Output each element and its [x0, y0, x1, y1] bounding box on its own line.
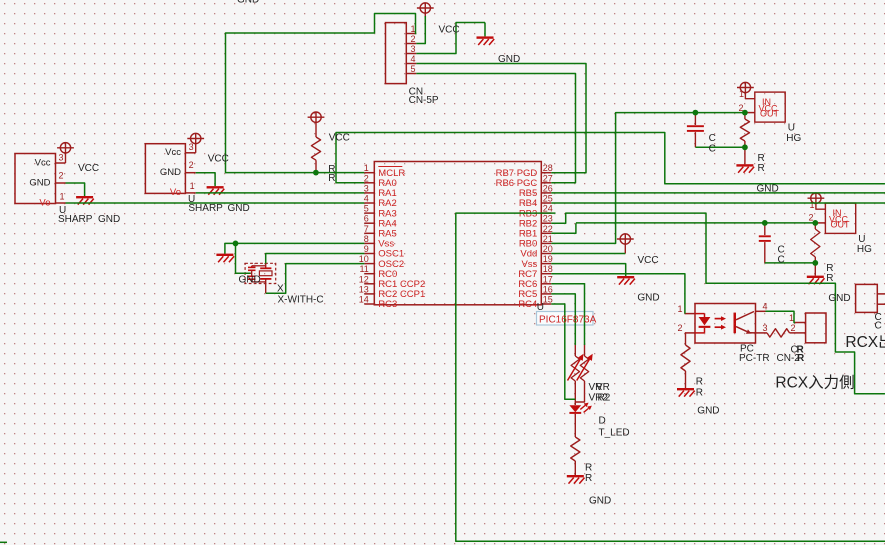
IC U1 left pins 1-14 stubs — [364, 173, 374, 304]
IR receiver module U4 HG (upper) body — [745, 92, 785, 122]
LED D1 emission arrows — [580, 403, 592, 413]
PC1 phototransistor — [734, 312, 756, 334]
svg-text:PC-TR: PC-TR — [739, 353, 770, 364]
svg-text:7: 7 — [364, 224, 369, 234]
svg-text:D: D — [599, 416, 606, 427]
svg-text:24: 24 — [543, 204, 553, 214]
U4 pin names IN VCC OUT — [759, 97, 780, 118]
label R R (R2) — [758, 153, 765, 174]
svg-text:C: C — [709, 143, 716, 154]
svg-text:VCC: VCC — [439, 25, 460, 36]
svg-text:RC3: RC3 — [378, 299, 397, 310]
svg-text:2: 2 — [410, 34, 415, 44]
optocoupler PC1 PC-TR body — [685, 304, 767, 344]
svg-text:OUT: OUT — [760, 108, 780, 118]
connector C2? CN-2P body — [795, 313, 826, 343]
label R R (R4) — [696, 376, 703, 398]
wire: RB4 net (pin24 through IC to bottom edge) — [456, 213, 885, 541]
resistor R1 (MCLR pull-up) — [311, 122, 320, 172]
junction at U4 pin2 / R2 — [742, 110, 748, 116]
junction at R1 / MCLR — [313, 170, 319, 176]
svg-text:RCX入力側: RCX入力側 — [775, 373, 854, 391]
svg-text:R: R — [585, 462, 592, 473]
wire: RC4 pin15 to LED anode node — [551, 304, 575, 399]
svg-text:GND: GND — [637, 293, 659, 304]
crystal X1 element — [259, 263, 272, 293]
IR receiver module U5 HG (lower) body — [815, 203, 855, 233]
svg-text:SHARP: SHARP — [188, 203, 223, 214]
wire: RC7 pin18 to PC1 pin1 — [551, 274, 685, 314]
label R R (R1) — [328, 164, 335, 184]
junction at C2 top — [762, 220, 768, 226]
label C C (right edge connector) — [875, 312, 882, 331]
IC U1 left pin numbers 1-14 — [359, 163, 369, 304]
wire: SHARP U3 GND pin to ground — [196, 173, 215, 186]
resistor R5 (series to CN-2P) — [767, 329, 806, 337]
ground symbol near Vss pin19 — [617, 276, 635, 285]
PC1 pin numbers — [677, 301, 767, 333]
svg-text:R2: R2 — [598, 392, 611, 403]
svg-text:T_LED: T_LED — [599, 427, 630, 438]
svg-text:2: 2 — [808, 213, 813, 223]
svg-text:VCC: VCC — [638, 255, 659, 266]
label U / SHARP / GND (U3) — [188, 194, 250, 214]
svg-text:8: 8 — [364, 234, 369, 244]
wire: OSC1 to crystal — [266, 254, 365, 264]
svg-text:VCC: VCC — [208, 154, 229, 165]
capacitor C2 (at U5) — [759, 223, 771, 263]
junction at Vss net — [233, 241, 239, 247]
capacitor C1 (at U4) — [687, 113, 704, 148]
svg-text:1: 1 — [190, 181, 195, 191]
svg-text:R: R — [696, 387, 703, 398]
IC U1 right pins 28-15 stubs — [541, 173, 551, 304]
svg-text:22: 22 — [543, 224, 553, 234]
svg-text:RCX出力側: RCX出力側 — [845, 333, 885, 351]
svg-text:28: 28 — [543, 163, 553, 173]
svg-text:GND: GND — [237, 0, 259, 6]
label C C (C1) — [709, 133, 716, 154]
svg-text:17: 17 — [543, 274, 553, 284]
svg-text:X: X — [277, 283, 284, 294]
svg-text:19: 19 — [543, 254, 553, 264]
SHARP sensor U2 (left) body — [15, 154, 66, 204]
svg-text:25: 25 — [543, 194, 553, 204]
svg-text:23: 23 — [543, 214, 553, 224]
SHARP U3 pin numbers — [189, 142, 195, 191]
ground symbol below R2 — [736, 164, 754, 173]
svg-text:VCC: VCC — [329, 132, 350, 143]
svg-text:Vcc: Vcc — [165, 147, 181, 158]
svg-text:3: 3 — [364, 183, 369, 193]
wire: Vdd pin20 to VCC symbol — [551, 253, 625, 255]
wire: Vss pin8 net to crystal ground — [225, 243, 364, 273]
ground symbol near CN-5P — [484, 23, 486, 37]
SHARP U2 pin numbers — [58, 152, 64, 201]
wire: OSC2 to crystal — [266, 264, 365, 294]
IC U1 right pin names — [496, 168, 538, 310]
U4 pin numbers — [738, 89, 744, 113]
resistor R4 (below PC1 pin 2) — [681, 333, 690, 388]
svg-text:C: C — [875, 320, 882, 331]
wire: SHARP U2 Vo to RA2 — [66, 202, 365, 204]
resistor R6 (below LED) — [571, 437, 580, 475]
svg-text:Vo: Vo — [39, 198, 50, 209]
svg-text:15: 15 — [543, 295, 553, 305]
resistor R3 (at U5) — [811, 223, 820, 276]
ground symbol below R3 — [807, 276, 825, 285]
wire: Vss pin19 to ground — [551, 264, 625, 276]
svg-text:1: 1 — [410, 24, 415, 34]
PC1 emission arrows — [715, 316, 726, 329]
svg-text:GND: GND — [757, 183, 779, 194]
svg-text:27: 27 — [543, 173, 553, 183]
ground symbol near SHARP U3 — [207, 186, 225, 195]
wire: RB2 net to U5 OUT — [551, 223, 815, 233]
SHARP sensor U3 (second) body — [145, 144, 195, 194]
label C C (C2) — [778, 244, 785, 265]
svg-text:GND: GND — [697, 405, 719, 416]
resistor R2 (at U4) — [740, 113, 749, 165]
svg-text:R: R — [696, 376, 703, 387]
svg-text:C: C — [778, 255, 785, 266]
wire: SHARP U3 Vo to RA1 — [196, 192, 365, 194]
svg-text:HG: HG — [786, 133, 801, 144]
svg-text:3: 3 — [58, 152, 63, 162]
svg-text:CN-5P: CN-5P — [409, 95, 439, 106]
svg-text:1: 1 — [789, 313, 794, 323]
wire: VCC net RA0 run — [336, 133, 885, 184]
SHARP U2 pin names — [29, 157, 50, 208]
wire: RC6 pin17 to VR2 — [551, 284, 584, 345]
svg-text:U: U — [537, 302, 544, 313]
vcc symbol at SHARP U2 — [57, 143, 74, 163]
svg-text:2: 2 — [58, 170, 63, 180]
IC U1 PIC16F873A body — [374, 162, 541, 305]
svg-text:11: 11 — [359, 264, 368, 274]
svg-text:20: 20 — [543, 244, 553, 254]
svg-text:1: 1 — [809, 200, 814, 210]
svg-text:4: 4 — [763, 301, 768, 311]
label X / X-WITH-C — [277, 283, 324, 305]
svg-text:GND: GND — [498, 54, 520, 65]
connector C (right edge) body — [856, 284, 885, 312]
svg-text:14: 14 — [359, 295, 369, 305]
SHARP U3 pin names — [160, 147, 181, 198]
connector CN CN-5P — [386, 23, 417, 84]
svg-text:SHARP: SHARP — [58, 214, 93, 225]
ground symbol near crystal — [216, 254, 234, 263]
svg-text:4: 4 — [364, 194, 369, 204]
label R R (R6) — [585, 462, 592, 484]
ground symbol near SHARP U2 — [76, 196, 94, 205]
svg-text:5: 5 — [410, 64, 415, 74]
wire: PGC net CN-5P pin5 to RB6 — [416, 74, 575, 183]
svg-text:26: 26 — [543, 183, 553, 193]
label CR / CN-2R (R5 and CN-2P overlapped) — [777, 344, 806, 364]
junction at R2 bottom — [742, 144, 748, 150]
svg-text:GND: GND — [98, 214, 120, 225]
svg-text:13: 13 — [359, 284, 369, 294]
wire: RC5 pin16 to VR1 — [551, 294, 575, 345]
CN-2P pin numbers — [789, 313, 796, 333]
U5 pin numbers — [808, 200, 814, 222]
svg-text:1: 1 — [677, 304, 682, 314]
label R R (R3) — [826, 263, 833, 284]
wire: C2 bottom to R3 bottom — [765, 262, 816, 264]
IC U1 right pin numbers 28-15 — [543, 163, 553, 304]
LED D1 T_LED — [569, 405, 581, 437]
wire: SHARP U2 GND pin to ground — [66, 183, 85, 196]
wire: VCC net (CN-5P pin2 to symbol) — [416, 16, 425, 44]
svg-text:PIC16F873A: PIC16F873A — [539, 314, 597, 325]
wire: GND net from pin26 to right edge — [551, 192, 885, 194]
svg-text:R: R — [826, 273, 833, 284]
svg-text:GND: GND — [160, 167, 181, 178]
svg-text:2: 2 — [790, 323, 795, 333]
svg-text:4: 4 — [410, 54, 415, 64]
label U / SHARP / GND (U2) — [58, 205, 120, 225]
svg-text:9: 9 — [364, 244, 369, 254]
svg-text:GND: GND — [239, 274, 261, 285]
wire: CN-5P pin3 to ground — [416, 23, 485, 54]
svg-text:Vo: Vo — [170, 187, 181, 198]
wire: PGD net CN-5P pin4 to RB7 — [416, 64, 586, 173]
vcc symbol above U4 pin 1 — [737, 82, 754, 92]
crystal X1 X-WITH-C dashed box — [245, 263, 276, 283]
svg-text:R: R — [585, 473, 592, 484]
svg-text:16: 16 — [543, 284, 553, 294]
PC1 internal LED — [695, 314, 710, 333]
label U / HG (U4) — [786, 123, 801, 144]
svg-text:GND: GND — [828, 293, 850, 304]
ground symbol below R6 — [567, 475, 585, 484]
junction at C1 top — [693, 110, 699, 116]
svg-text:RC4: RC4 — [518, 299, 537, 310]
crystal X1 internal load capacitors — [248, 266, 266, 282]
IC U1 left pin names — [378, 167, 425, 311]
wire: stub at bottom-left edge — [0, 541, 7, 543]
vcc symbol at Vdd pin20 — [617, 234, 634, 254]
svg-text:5: 5 — [364, 204, 369, 214]
U5 pin names IN VCC OUT — [829, 208, 850, 229]
svg-text:6: 6 — [364, 214, 369, 224]
variable resistor VR2 — [575, 345, 592, 403]
label U / HG (U5) — [857, 234, 872, 255]
svg-text:1: 1 — [739, 89, 744, 99]
svg-text:R: R — [758, 163, 765, 174]
vcc symbol above U5 pin 1 — [808, 193, 825, 203]
wire: C1 bottom to R2 bottom — [695, 146, 745, 148]
label CN / CN-5P — [409, 87, 439, 106]
svg-text:2: 2 — [364, 173, 369, 183]
svg-text:R: R — [797, 353, 805, 364]
vcc symbol at SHARP U3 — [187, 133, 204, 153]
wire: RB4 net from pin25 to right edge — [551, 202, 885, 204]
wire: MCLR net from CN-5P pin1 — [226, 14, 417, 173]
junction at R3 bottom — [812, 260, 818, 266]
wire: PC1 pin4 to CN-2P pin1 — [766, 311, 796, 322]
svg-text:X-WITH-C: X-WITH-C — [278, 295, 324, 306]
svg-text:VCC: VCC — [78, 163, 99, 174]
svg-text:12: 12 — [359, 274, 369, 284]
svg-text:2: 2 — [677, 323, 682, 333]
svg-text:GND: GND — [29, 177, 50, 188]
svg-text:1: 1 — [364, 163, 369, 173]
svg-text:2: 2 — [189, 160, 194, 170]
wire: RB3 net (pin23 jog, run right, down to CN-2P side, staircase to right edge) — [551, 213, 885, 394]
vcc symbol above R1 — [308, 112, 325, 122]
ground symbol below R4 — [677, 388, 695, 397]
wire: RB1 net to U4 OUT — [551, 113, 745, 244]
svg-text:HG: HG — [857, 244, 872, 255]
highlighted value label PIC16F873A box — [537, 312, 594, 326]
svg-text:21: 21 — [543, 234, 553, 244]
svg-text:10: 10 — [359, 254, 369, 264]
svg-text:GND: GND — [228, 203, 250, 214]
label D / T_LED — [599, 416, 630, 439]
svg-text:GND: GND — [589, 495, 611, 506]
svg-text:Vcc: Vcc — [35, 157, 51, 168]
junction at U5 pin2 / R3 — [812, 220, 818, 226]
svg-text:3: 3 — [410, 44, 415, 54]
svg-text:18: 18 — [543, 264, 553, 274]
vcc symbol at CN-5P pin2 — [417, 3, 434, 18]
svg-text:R: R — [328, 173, 335, 184]
label VRVR / VR2R2 — [589, 382, 611, 403]
svg-text:1: 1 — [59, 191, 64, 201]
svg-text:OUT: OUT — [831, 219, 851, 229]
svg-text:3: 3 — [763, 323, 768, 333]
variable resistor VR1 — [568, 345, 584, 406]
label PC / PC-TR — [739, 344, 770, 364]
